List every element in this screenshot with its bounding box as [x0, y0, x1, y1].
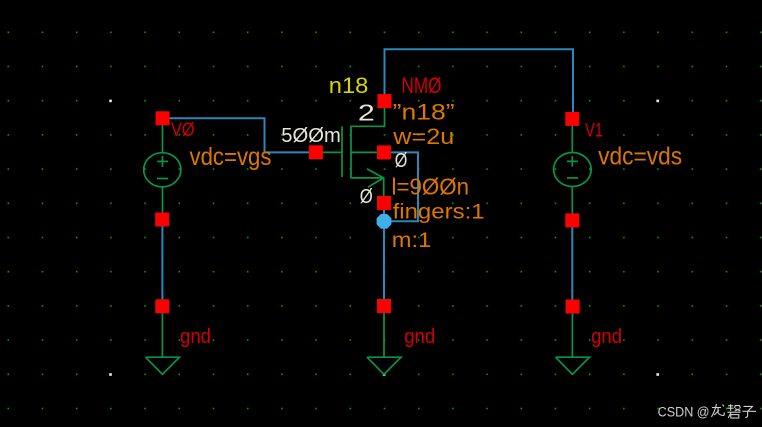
svg-text:V1: V1: [585, 120, 603, 142]
voltage source V1: [554, 125, 592, 215]
pin square V1 bottom: [565, 213, 579, 227]
transistor NM0: [320, 99, 385, 206]
major grid dot: [109, 100, 112, 103]
wire V0 bottom to left ground: [161, 225, 163, 300]
pin square left ground: [155, 299, 169, 313]
ground left: [146, 312, 180, 374]
svg-text:Ø: Ø: [395, 150, 408, 172]
voltage source V0: [144, 124, 181, 214]
solder dot junction: [377, 214, 392, 229]
svg-text:gnd: gnd: [404, 326, 435, 348]
svg-text:vdc=vgs: vdc=vgs: [190, 142, 272, 170]
ground middle: [367, 312, 401, 374]
wire bulk loop: [384, 152, 418, 221]
wire source to mid ground: [383, 208, 385, 300]
wire V1 bottom to right ground: [571, 226, 573, 300]
pin square V1 top: [565, 112, 579, 126]
svg-text:n18: n18: [329, 74, 369, 99]
watermark CJK glyph pan: [727, 404, 740, 418]
svg-text:NMØ: NMØ: [402, 74, 442, 99]
major grid dot: [656, 373, 659, 376]
pin square V0 top: [156, 111, 170, 125]
svg-text:fingers:1: fingers:1: [393, 201, 485, 224]
svg-text:Ø: Ø: [360, 186, 373, 208]
wire V0 to gate: [169, 118, 310, 152]
svg-text:m:1: m:1: [392, 229, 432, 252]
major grid dot: [109, 373, 112, 376]
svg-text:gnd: gnd: [591, 326, 622, 348]
svg-text:l=9ØØn: l=9ØØn: [392, 174, 470, 200]
pin square middle ground: [377, 299, 391, 313]
ground right: [556, 312, 590, 374]
svg-text:”n18”: ”n18”: [393, 100, 455, 125]
major grid dot: [383, 373, 386, 376]
pin square right ground: [566, 300, 580, 314]
pin square V0 bottom: [155, 213, 169, 227]
major grid dot: [656, 100, 659, 103]
watermark CJK glyph zi: [742, 406, 756, 417]
pin square gate: [309, 145, 323, 159]
svg-text:gnd: gnd: [180, 326, 211, 348]
svg-text:VØ: VØ: [171, 119, 195, 141]
svg-text:w=2u: w=2u: [392, 124, 454, 149]
pin square source: [377, 196, 391, 210]
watermark CJK glyph long: [712, 404, 725, 417]
svg-text:5ØØm: 5ØØm: [281, 125, 341, 147]
pin square drain: [378, 94, 392, 108]
wire drain to V1 top: [385, 49, 574, 113]
svg-text:2: 2: [358, 100, 375, 126]
svg-text:vdc=vds: vdc=vds: [598, 142, 682, 170]
pin square bulk: [377, 145, 391, 159]
svg-text:CSDN @: CSDN @: [658, 405, 710, 420]
